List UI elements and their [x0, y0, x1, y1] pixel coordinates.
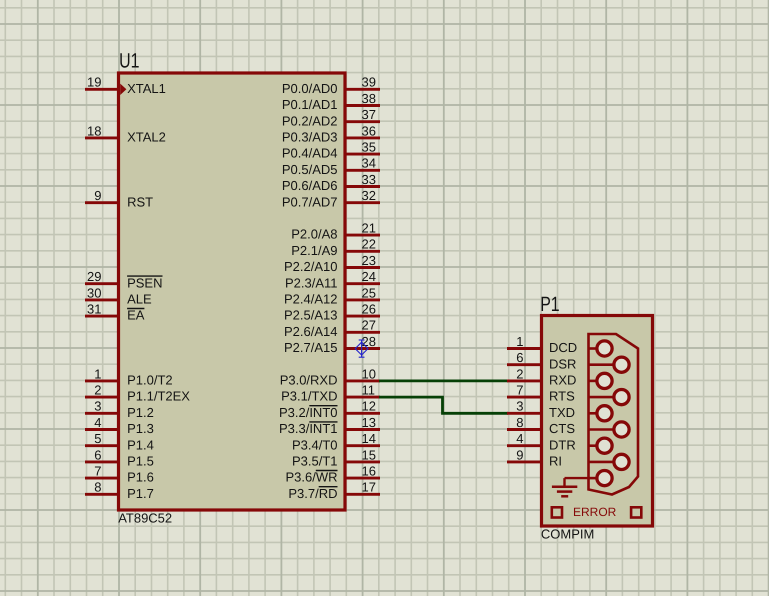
U1 pin 4 (P1.3) stub + number + name: [85, 415, 154, 436]
U1 pin 39 (P0.0/AD0) stub + number + name: [282, 75, 380, 96]
svg-text:P0.4/AD4: P0.4/AD4: [282, 146, 338, 161]
svg-text:P1.6: P1.6: [127, 470, 154, 485]
svg-text:22: 22: [362, 237, 376, 252]
ERROR label: [573, 505, 617, 519]
DB9 connector outline inside P1: [589, 334, 639, 495]
svg-text:35: 35: [362, 140, 376, 155]
svg-text:ERROR: ERROR: [573, 505, 617, 519]
svg-text:P2.4/A12: P2.4/A12: [284, 292, 338, 307]
svg-text:P1.2: P1.2: [127, 405, 154, 420]
U1 pin 16 (P3.6/WR) stub + number + name: [285, 464, 380, 485]
U1 pin 3 (P1.2) stub + number + name: [85, 399, 154, 420]
U1 pin 29 (PSEN) stub + number + name: [85, 269, 163, 290]
svg-text:P0.7/AD7: P0.7/AD7: [282, 194, 338, 209]
U1 pin 6 (P1.5) stub + number + name: [85, 447, 154, 468]
op-amp U1 body (AT89C52 IC outline): [119, 73, 346, 510]
svg-text:P0.2/AD2: P0.2/AD2: [282, 113, 338, 128]
DB9 pin circle (right col 4) with lead: [589, 454, 630, 469]
DB9 pin circle (left col 1) with lead: [589, 341, 613, 356]
U1 pin 32 (P0.7/AD7) stub + number + name: [282, 188, 380, 209]
P1 pin 1 (DCD) stub + number + name: [507, 334, 577, 355]
P1 pin 3 (TXD) stub + number + name: [507, 399, 575, 420]
svg-text:30: 30: [87, 285, 101, 300]
U1 pin 5 (P1.4) stub + number + name: [85, 431, 154, 452]
connector P1 body (COMPIM): [542, 316, 653, 527]
U1 pin 31 (EA) stub + number + name: [85, 302, 145, 323]
U1 pin 21 (P2.0/A8) stub + number + name: [291, 221, 380, 242]
svg-text:3: 3: [516, 399, 523, 414]
svg-text:P2.2/A10: P2.2/A10: [284, 259, 338, 274]
svg-text:39: 39: [362, 75, 376, 90]
svg-text:25: 25: [362, 285, 376, 300]
svg-text:P2.3/A11: P2.3/A11: [285, 275, 338, 290]
U1 pin 30 (ALE) stub + number + name: [85, 285, 152, 306]
svg-text:8: 8: [516, 415, 523, 430]
ground symbol inside P1: [552, 478, 589, 496]
DB9 pin circle (right col 2) with lead: [589, 390, 630, 405]
svg-text:DCD: DCD: [549, 340, 577, 355]
svg-text:36: 36: [362, 123, 376, 138]
svg-text:EA: EA: [127, 308, 145, 323]
U1 pin 37 (P0.2/AD2) stub + number + name: [282, 107, 380, 128]
U1 pin 7 (P1.6) stub + number + name: [85, 464, 154, 485]
svg-text:P3.1/TXD: P3.1/TXD: [281, 389, 337, 404]
U1 pin 13 (P3.3/INT1) stub + number + name: [279, 415, 380, 436]
svg-text:33: 33: [362, 172, 376, 187]
U1 pin 14 (P3.4/T0) stub + number + name: [292, 431, 380, 452]
wire RXD: U1 pin10 P3.0/RXD to P1 pin2 RXD: [379, 379, 508, 382]
svg-text:COMPIM: COMPIM: [541, 527, 594, 542]
svg-text:RTS: RTS: [549, 389, 575, 404]
U1 pin 15 (P3.5/T1) stub + number + name: [292, 447, 380, 468]
svg-text:P2.0/A8: P2.0/A8: [291, 227, 337, 242]
U1 pin 8 (P1.7) stub + number + name: [85, 480, 154, 501]
DB9 pin circle (left col 3) with lead: [589, 406, 613, 421]
U1 pin 19 (XTAL1) stub + number + name: [85, 75, 166, 96]
svg-text:ALE: ALE: [127, 292, 152, 307]
svg-text:3: 3: [94, 399, 101, 414]
P1 pin 7 (RTS) stub + number + name: [507, 383, 575, 404]
U1 pin 23 (P2.2/A10) stub + number + name: [284, 253, 380, 274]
U1 pin 17 (P3.7/RD) stub + number + name: [288, 480, 380, 501]
U1 pin 28 (P2.7/A15) stub + number + name: [284, 334, 380, 355]
svg-text:P1.5: P1.5: [127, 454, 154, 469]
svg-text:4: 4: [94, 415, 101, 430]
svg-text:1: 1: [94, 366, 101, 381]
U1 pin 22 (P2.1/A9) stub + number + name: [291, 237, 380, 258]
U1 pin 33 (P0.6/AD6) stub + number + name: [282, 172, 380, 193]
svg-text:24: 24: [362, 269, 376, 284]
ERROR LED square right: [631, 507, 641, 517]
U1 pin 9 (RST) stub + number + name: [85, 188, 153, 209]
svg-text:CTS: CTS: [549, 421, 575, 436]
DB9 pin circle (right col 1) with lead: [589, 357, 630, 372]
svg-text:P2.1/A9: P2.1/A9: [291, 243, 337, 258]
svg-text:4: 4: [516, 431, 523, 446]
svg-text:RXD: RXD: [549, 373, 576, 388]
P1 pin 4 (DTR) stub + number + name: [507, 431, 576, 452]
svg-text:P3.2/INT0: P3.2/INT0: [279, 405, 338, 420]
DB9 pin circle (left col 5) with lead: [589, 471, 613, 486]
svg-text:2: 2: [94, 383, 101, 398]
svg-text:XTAL2: XTAL2: [127, 130, 166, 145]
svg-text:17: 17: [362, 480, 376, 495]
svg-text:26: 26: [362, 302, 376, 317]
svg-text:P1.1/T2EX: P1.1/T2EX: [127, 389, 190, 404]
svg-text:19: 19: [87, 75, 101, 90]
svg-text:11: 11: [362, 383, 376, 398]
svg-text:6: 6: [516, 350, 523, 365]
svg-text:AT89C52: AT89C52: [118, 511, 172, 526]
U1 pin 11 (P3.1/TXD) stub + number + name: [281, 383, 380, 404]
svg-text:P2.5/A13: P2.5/A13: [284, 308, 338, 323]
svg-text:9: 9: [94, 188, 101, 203]
svg-text:PSEN: PSEN: [127, 275, 162, 290]
U1 reference label: [119, 50, 139, 73]
wire TXD: U1 pin11 P3.1/TXD to P1 pin3 TXD: [379, 397, 508, 413]
U1 pin 36 (P0.3/AD3) stub + number + name: [282, 123, 380, 144]
svg-text:38: 38: [362, 91, 376, 106]
svg-text:9: 9: [516, 447, 523, 462]
XTAL1 clock input arrow on pin 19: [120, 84, 126, 95]
svg-text:7: 7: [94, 464, 101, 479]
P1 pin 2 (RXD) stub + number + name: [507, 366, 576, 387]
DB9 pin circle (left col 4) with lead: [589, 438, 613, 453]
svg-text:P0.5/AD5: P0.5/AD5: [282, 162, 338, 177]
svg-text:18: 18: [87, 123, 101, 138]
svg-text:P3.4/T0: P3.4/T0: [292, 437, 338, 452]
P1 reference label: [540, 293, 559, 316]
U1 pin 18 (XTAL2) stub + number + name: [85, 123, 166, 144]
svg-text:RST: RST: [127, 194, 153, 209]
svg-text:34: 34: [362, 156, 376, 171]
U1 pin 2 (P1.1/T2EX) stub + number + name: [85, 383, 190, 404]
svg-text:1: 1: [516, 334, 523, 349]
svg-text:29: 29: [87, 269, 101, 284]
svg-text:P1.0/T2: P1.0/T2: [127, 373, 173, 388]
svg-text:P2.6/A14: P2.6/A14: [284, 324, 338, 339]
U1 pin 34 (P0.5/AD5) stub + number + name: [282, 156, 380, 177]
svg-text:P2.7/A15: P2.7/A15: [284, 340, 338, 355]
svg-text:P3.6/WR: P3.6/WR: [285, 470, 337, 485]
svg-text:16: 16: [362, 464, 376, 479]
svg-text:37: 37: [362, 107, 376, 122]
DB9 pin circle (right col 3) with lead: [589, 422, 630, 437]
svg-text:DSR: DSR: [549, 356, 576, 371]
U1 pin 10 (P3.0/RXD) stub + number + name: [280, 366, 380, 387]
svg-text:23: 23: [362, 253, 376, 268]
svg-text:U1: U1: [119, 50, 139, 73]
svg-text:28: 28: [362, 334, 376, 349]
svg-text:XTAL1: XTAL1: [127, 81, 166, 96]
svg-text:P1.3: P1.3: [127, 421, 154, 436]
U1 pin 26 (P2.5/A13) stub + number + name: [284, 302, 380, 323]
svg-text:5: 5: [94, 431, 101, 446]
svg-text:P3.3/INT1: P3.3/INT1: [279, 421, 338, 436]
U1 pin 24 (P2.3/A11) stub + number + name: [285, 269, 380, 290]
svg-text:P1: P1: [540, 293, 559, 316]
svg-text:P0.1/AD1: P0.1/AD1: [282, 97, 338, 112]
svg-text:13: 13: [362, 415, 376, 430]
svg-text:P0.0/AD0: P0.0/AD0: [282, 81, 338, 96]
svg-text:7: 7: [516, 383, 523, 398]
svg-text:10: 10: [362, 366, 376, 381]
U1 pin 12 (P3.2/INT0) stub + number + name: [279, 399, 380, 420]
svg-text:P3.0/RXD: P3.0/RXD: [280, 373, 338, 388]
svg-text:DTR: DTR: [549, 437, 576, 452]
svg-text:P3.5/T1: P3.5/T1: [292, 454, 338, 469]
svg-text:2: 2: [516, 366, 523, 381]
svg-text:21: 21: [362, 221, 376, 236]
U1 pin 35 (P0.4/AD4) stub + number + name: [282, 140, 380, 161]
svg-text:P1.4: P1.4: [127, 437, 154, 452]
svg-text:P0.6/AD6: P0.6/AD6: [282, 178, 338, 193]
U1 pin 38 (P0.1/AD1) stub + number + name: [282, 91, 380, 112]
svg-text:6: 6: [94, 447, 101, 462]
svg-text:P1.7: P1.7: [127, 486, 154, 501]
svg-text:P3.7/RD: P3.7/RD: [288, 486, 337, 501]
P1 pin 6 (DSR) stub + number + name: [507, 350, 576, 371]
svg-text:12: 12: [362, 399, 376, 414]
node marker (blue origin crosshair) at U1 pin 28: [355, 340, 368, 358]
DB9 pin circle (left col 2) with lead: [589, 373, 613, 388]
svg-text:27: 27: [362, 318, 376, 333]
U1 pin 27 (P2.6/A14) stub + number + name: [284, 318, 380, 339]
ERROR LED square left: [552, 507, 562, 517]
svg-text:31: 31: [87, 302, 101, 317]
svg-text:14: 14: [362, 431, 376, 446]
svg-text:RI: RI: [549, 454, 562, 469]
U1 pin 1 (P1.0/T2) stub + number + name: [85, 366, 173, 387]
U1 pin 25 (P2.4/A12) stub + number + name: [284, 285, 380, 306]
svg-text:32: 32: [362, 188, 376, 203]
P1 pin 8 (CTS) stub + number + name: [507, 415, 575, 436]
svg-text:P0.3/AD3: P0.3/AD3: [282, 130, 338, 145]
P1 pin 9 (RI) stub + number + name: [507, 447, 562, 468]
svg-text:8: 8: [94, 480, 101, 495]
svg-text:TXD: TXD: [549, 405, 575, 420]
svg-text:15: 15: [362, 447, 376, 462]
